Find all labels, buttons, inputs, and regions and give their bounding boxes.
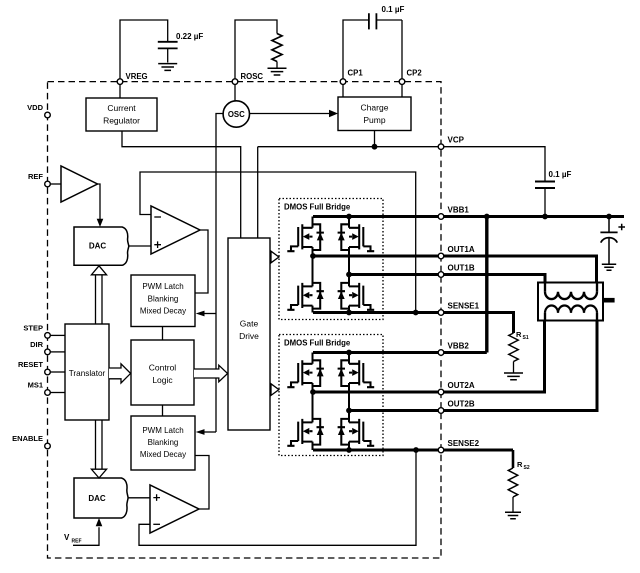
svg-text:R: R [517, 460, 523, 469]
arrowhead into DAC2 [96, 518, 103, 526]
wire branch to PWM latch 1 [205, 313, 217, 315]
svg-text:Mixed Decay: Mixed Decay [140, 307, 186, 316]
capacitor C1 plates [158, 42, 178, 49]
block Charge Pump [338, 97, 411, 131]
svg-text:Mixed Decay: Mixed Decay [140, 450, 186, 459]
arrow gate drive to bridge 2 [271, 384, 279, 396]
wire comparator2 output to PWM latch 2 [195, 456, 209, 510]
node VCP junction [372, 144, 378, 150]
motor shaft [603, 298, 615, 303]
svg-text:MS1: MS1 [28, 381, 43, 390]
wire branch to PWM latch 2 [205, 431, 217, 433]
wire VREF to DAC2 [73, 527, 99, 545]
wire VREG pin to current regulator [119, 82, 121, 98]
wire VBB2 rail [313, 351, 487, 354]
wire bridge2 left column [312, 353, 314, 451]
pin REF [45, 181, 51, 187]
svg-text:OUT2B: OUT2B [448, 400, 475, 409]
node SENSE2-Q8 junction [346, 447, 352, 453]
svg-text:REF: REF [28, 172, 43, 181]
svg-text:Logic: Logic [152, 375, 173, 385]
node OUT1B junction [346, 272, 352, 278]
IC boundary (dashed package outline) [48, 82, 442, 558]
ground (RS2) [505, 512, 521, 518]
capacitor C4 (electrolytic) [608, 217, 610, 232]
wire MS1 to translator [50, 392, 65, 394]
node VBB1-Q2 junction [346, 214, 352, 220]
pin OUT1B [438, 272, 444, 278]
block Translator [65, 324, 109, 420]
resistor R1 (ROSC) [272, 34, 282, 62]
wire VCP line [258, 146, 441, 148]
svg-text:Blanking: Blanking [148, 438, 179, 447]
ground (RS1) [504, 373, 523, 380]
wire CP1 pin to charge pump [342, 82, 344, 97]
wire VBB1 rail [313, 215, 624, 218]
wire PWM latch 1 to control logic [162, 327, 164, 341]
op-amp REF buffer [61, 166, 98, 202]
svg-text:VREG: VREG [126, 72, 148, 81]
bus translator to DAC1 [96, 275, 103, 324]
node OUT1A junction [310, 253, 316, 259]
svg-text:Blanking: Blanking [148, 294, 179, 303]
svg-text:S1: S1 [523, 335, 529, 341]
svg-text:PWM Latch: PWM Latch [142, 426, 183, 435]
svg-text:VCP: VCP [448, 136, 465, 145]
svg-text:CP2: CP2 [407, 69, 423, 78]
node C4-VBB1 junction [606, 214, 612, 220]
pin ENABLE [45, 443, 51, 449]
oscillator OSC [223, 101, 249, 127]
svg-text:DIR: DIR [30, 340, 44, 349]
svg-text:Regulator: Regulator [103, 116, 140, 126]
pin VREG [117, 79, 123, 85]
pin ROSC [232, 79, 238, 85]
pin SENSE2 [438, 447, 444, 453]
svg-text:OUT1B: OUT1B [448, 264, 475, 273]
svg-text:SENSE1: SENSE1 [448, 302, 480, 311]
label comparator1 plus [154, 241, 161, 248]
svg-text:VBB1: VBB1 [448, 206, 470, 215]
wire DAC2 to comparator2 + [128, 497, 150, 499]
svg-text:DAC: DAC [89, 241, 107, 250]
pin VDD [45, 112, 51, 118]
svg-text:ENABLE: ENABLE [12, 434, 43, 443]
wire SENSE2 to RS2 [512, 450, 515, 468]
svg-text:DAC: DAC [88, 494, 106, 503]
wire VREG to C1 [120, 20, 168, 82]
pin VBB1 [438, 214, 444, 220]
wire SENSE1 line [313, 313, 514, 334]
arrowhead into charge pump [329, 110, 338, 118]
wire comparator1 output to PWM latch 1 [195, 230, 208, 293]
node SENSE1 feedback junction [413, 310, 419, 316]
svg-text:V: V [64, 533, 70, 542]
svg-text:VBB2: VBB2 [448, 342, 470, 351]
label comparator2 plus [153, 494, 160, 501]
pin VBB2 [438, 350, 444, 356]
bus control logic to gate drive [194, 365, 228, 382]
wire STEP to translator [50, 334, 65, 336]
svg-text:S2: S2 [524, 465, 530, 471]
svg-text:Pump: Pump [363, 115, 385, 125]
bus translator to DAC2 [96, 420, 103, 469]
capacitor C2 plates [369, 13, 377, 29]
svg-text:ROSC: ROSC [241, 72, 264, 81]
pin CP1 [340, 79, 346, 85]
transistor Q2 (bridge1 high-side right) [338, 224, 375, 251]
inductor winding 1 (top coil) [545, 283, 597, 292]
pin STEP [45, 333, 51, 339]
svg-text:R: R [516, 330, 522, 339]
svg-text:REF: REF [72, 538, 82, 544]
block Gate Drive [228, 238, 270, 430]
arrow gate drive to bridge 1 [271, 251, 279, 263]
pin OUT2A [438, 389, 444, 395]
node SENSE1-Q4 junction [346, 310, 352, 316]
pin MS1 [45, 390, 51, 396]
wire buffer to DAC1 [98, 184, 101, 219]
wire OSC to charge pump [250, 113, 330, 115]
capacitor C3 plates [535, 182, 555, 189]
node SENSE2 feedback junction [413, 447, 419, 453]
ground (R1) [268, 68, 287, 75]
ground (C1) [158, 64, 177, 71]
wire OUT1A line [313, 256, 597, 283]
svg-text:VDD: VDD [27, 103, 43, 112]
svg-text:PWM Latch: PWM Latch [142, 282, 183, 291]
sense resistor RS2 [508, 468, 517, 497]
svg-text:OUT1A: OUT1A [448, 245, 475, 254]
block DAC2 [74, 478, 128, 518]
pin RESET [45, 369, 51, 375]
op-amp comparator1 [151, 206, 200, 254]
pin OUT2B [438, 408, 444, 414]
wire DIR to translator [50, 351, 65, 353]
transistor Q1 (bridge1 high-side left) [287, 224, 324, 251]
svg-text:0.1 µF: 0.1 µF [382, 5, 405, 14]
wire OUT2B line [349, 321, 597, 411]
block PWM latch 1 [131, 275, 195, 327]
wire R1 to ground [276, 62, 278, 69]
wire current regulator output to gate drive [122, 131, 241, 238]
op-amp comparator2 [150, 485, 199, 533]
bus translator to control logic [109, 364, 131, 383]
svg-text:Control: Control [149, 363, 177, 373]
wire bridge1 left column [312, 217, 314, 313]
wire charge pump to VCP node [374, 131, 376, 147]
wire bridge1 right column [348, 217, 350, 313]
inductor winding 2 (bottom coil) [545, 313, 597, 321]
svg-text:RESET: RESET [18, 360, 43, 369]
DMOS full bridge 1 box [279, 199, 383, 320]
pin CP2 [399, 79, 405, 85]
wire DAC1 to comparator1 + [129, 245, 151, 247]
wire comparator2 feedback from SENSE2 [139, 450, 416, 545]
wire REF pin to buffer [50, 183, 61, 185]
transistor Q8 (bridge2 low-side right) [338, 419, 375, 446]
motor winding box [538, 283, 603, 321]
node VBB2-Q6 junction [346, 350, 352, 356]
svg-text:DMOS Full Bridge: DMOS Full Bridge [284, 202, 351, 211]
label C4 plus [618, 224, 625, 231]
transistor Q5 (bridge2 high-side left) [287, 360, 324, 387]
wire ROSC pin to OSC [234, 84, 236, 101]
svg-text:Drive: Drive [239, 331, 259, 341]
label comparator1 minus [154, 216, 161, 218]
ground (C4) [602, 264, 616, 270]
transistor Q3 (bridge1 low-side left) [287, 283, 324, 310]
wire bridge2 right column [348, 353, 350, 451]
arrowhead into DAC1 [97, 219, 104, 227]
svg-text:Gate: Gate [240, 319, 259, 329]
svg-text:CP1: CP1 [348, 69, 364, 78]
svg-text:0.1 µF: 0.1 µF [549, 170, 572, 179]
label comparator2 minus [153, 523, 160, 525]
sense resistor RS1 [509, 333, 518, 362]
DMOS full bridge 2 box [279, 335, 383, 456]
wire CP1 to C2 [343, 20, 369, 82]
pin SENSE1 [438, 310, 444, 316]
node VBB link junction [484, 214, 490, 220]
wire VCP branch to gate drive [257, 147, 259, 238]
svg-text:OUT2A: OUT2A [448, 381, 475, 390]
wire CP2 pin to charge pump [401, 82, 403, 97]
node OUT2B junction [346, 408, 352, 414]
transistor Q7 (bridge2 low-side left) [287, 419, 324, 446]
svg-text:STEP: STEP [23, 323, 43, 332]
wire OSC blanking line (to PWM latches) [216, 114, 223, 433]
svg-text:Current: Current [107, 103, 136, 113]
block Current Regulator [86, 98, 157, 131]
wire OUT1B line [349, 275, 545, 283]
transistor Q4 (bridge1 low-side right) [338, 283, 375, 310]
svg-text:0.22 µF: 0.22 µF [176, 32, 203, 41]
pin VCP [438, 144, 444, 150]
pin DIR [45, 349, 51, 355]
wire C1 to ground [167, 48, 169, 62]
wire RESET to translator [50, 371, 65, 373]
wire comparator1 feedback from SENSE1 [140, 172, 416, 313]
wire VCP pin to C3 [441, 147, 545, 182]
wire VBB1 to VBB2 link [485, 217, 488, 353]
wire SENSE2 line [313, 449, 513, 452]
svg-text:DMOS Full Bridge: DMOS Full Bridge [284, 338, 351, 347]
svg-text:Charge: Charge [361, 103, 389, 113]
block PWM latch 2 [131, 416, 195, 470]
svg-text:Translator: Translator [69, 369, 106, 378]
wire C3 to VBB1 rail [544, 188, 546, 217]
node C3-VBB1 junction [542, 214, 548, 220]
svg-text:OSC: OSC [228, 110, 245, 119]
pin OUT1A [438, 253, 444, 259]
transistor Q6 (bridge2 high-side right) [338, 360, 375, 387]
block DAC1 [74, 227, 129, 265]
wire ROSC to R1 [235, 20, 277, 82]
wire OUT2A line [313, 321, 545, 393]
node OUT2A junction [310, 389, 316, 395]
wire C2 to CP2 [376, 20, 402, 82]
block Control Logic [131, 340, 194, 405]
arrowhead into PWM latch 1 [196, 311, 205, 317]
arrowhead into PWM latch 2 [196, 429, 205, 435]
wire control logic to PWM latch 2 [162, 405, 164, 416]
svg-text:SENSE2: SENSE2 [448, 439, 480, 448]
